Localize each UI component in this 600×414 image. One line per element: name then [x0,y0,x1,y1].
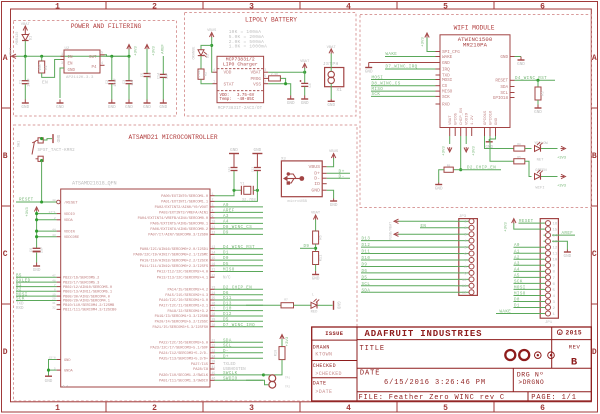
svg-text:C: C [592,250,597,259]
svg-text:SDA: SDA [500,85,508,90]
resistor R2 1.0K [198,69,204,79]
svg-text:GND: GND [485,145,493,150]
svg-text:PA01/I11/SECOM1.3/SWDIO: PA01/I11/SECOM1.3/SWDIO [159,379,209,384]
svg-text:PB03/13/AIN11/SERCOM5.1: PB03/13/AIN11/SERCOM5.1 [63,289,113,294]
svg-text:11: 11 [462,285,467,289]
svg-text:PA08/I2C/AIN16/SERCOM0+2.0/I2S: PA08/I2C/AIN16/SERCOM0+2.0/I2SD1 [140,247,209,252]
svg-text:GND: GND [564,254,572,259]
svg-text:PB23/17/SERCOM5.3: PB23/17/SERCOM5.3 [63,280,99,285]
svg-text:12: 12 [462,292,467,296]
svg-text:GND: GND [312,276,320,281]
capacitor C2 10uF [111,56,113,80]
svg-text:C6: C6 [30,248,34,252]
wire VBAT rail [17,55,130,57]
svg-text:1uF: 1uF [40,247,44,253]
svg-text:3: 3 [249,2,254,11]
svg-text:TP2: TP2 [285,386,290,389]
ground [315,271,317,275]
svg-text:RXD: RXD [442,102,450,107]
resistor R5 1K [514,159,525,164]
svg-text:11: 11 [553,253,558,257]
svg-text:VDDIO: VDDIO [64,213,75,217]
svg-text:OUT: OUT [89,56,97,60]
svg-text:KTOWN: KTOWN [315,351,332,357]
svg-text:30: 30 [212,323,216,327]
wire VBUS to U3 VDD [211,37,214,72]
svg-text:VSS: VSS [253,83,261,88]
svg-text:GND: GND [21,105,29,110]
svg-text:31: 31 [52,302,56,305]
svg-text:PA17/I2C/I1/SERCOM1+3.1: PA17/I2C/I1/SERCOM1+3.1 [159,304,209,309]
svg-text:15: 15 [553,229,558,233]
svg-text:R2: R2 [204,72,208,76]
svg-text:B: B [592,152,597,161]
resistor R9 pulldown chip_en [453,169,460,171]
svg-text:PA28/I8: PA28/I8 [193,367,208,372]
svg-text:+3V3: +3V3 [422,37,426,47]
svg-text:GND: GND [33,268,41,273]
svg-text:PA15/I15/SERCOM2+4.3: PA15/I15/SERCOM2+4.3 [165,293,208,298]
svg-text:C14: C14 [158,73,162,79]
wire R2 to STAT [201,79,213,83]
junction [127,55,130,58]
crystal Y1 32.768kHz [240,186,242,195]
svg-text:GND: GND [68,69,76,73]
svg-text:GND: GND [45,379,53,384]
ground at U4 right GND pin [515,56,522,58]
U1 /RESET inversion bubble [57,200,61,204]
svg-text:Temp:: Temp: [220,98,232,102]
svg-text:PA20/I4/SERCOM3+5.2/I2SSC: PA20/I4/SERCOM3+5.2/I2SSC [155,320,209,325]
svg-text:34: 34 [212,354,216,358]
svg-text:VBAT: VBAT [250,71,261,76]
svg-text:PB10/110/SERCOM4.2/I2SMB: PB10/110/SERCOM4.2/I2SMB [63,303,115,308]
diode D1 MBR120 [22,35,29,41]
svg-text:C13: C13 [251,167,254,173]
svg-text:6/15/2016 3:26:46 PM: 6/15/2016 3:26:46 PM [384,379,486,387]
resistor R10 pullup [279,347,285,360]
wire +3V3 to R10 [281,339,283,347]
header JP1 [540,219,558,319]
capacitor C6 1uF VDDCORE [36,237,38,249]
svg-text:GND: GND [311,188,320,194]
svg-text:GND: GND [500,55,508,60]
svg-text:SW1: SW1 [18,141,22,147]
svg-text:PA30/I10/SECOM1.2/SWCLK: PA30/I10/SECOM1.2/SWCLK [159,373,209,378]
svg-text:1.0K = 1000mA: 1.0K = 1000mA [229,44,267,50]
svg-text:6: 6 [540,404,545,413]
wire R9 to ground [439,170,444,183]
svg-text:PA10/I10/AIN18/SERCOM0+2.2/I2S: PA10/I10/AIN18/SERCOM0+2.2/I2SCK [140,258,209,263]
title block copyright cell [551,327,553,340]
svg-text:SPST_TACT-KMR2: SPST_TACT-KMR2 [38,149,76,153]
svg-text:ADAFRUIT INDUSTRIES: ADAFRUIT INDUSTRIES [365,329,483,339]
svg-text:D1: D1 [30,36,34,40]
svg-text:/RESET: /RESET [64,200,78,205]
svg-text:PA16/I2C/I0/SERCOM1+3.0: PA16/I2C/I0/SERCOM1+3.0 [159,298,208,303]
svg-text:2: 2 [212,198,214,202]
svg-text:GND: GND [56,105,64,110]
svg-text:ID: ID [314,181,320,187]
ground [438,183,440,185]
supply +3V3 to SPI_CFG [425,33,429,38]
wire GND GNDA to ground [49,360,57,376]
svg-text:RXLED: RXLED [16,279,31,283]
svg-text:PROG: PROG [250,77,261,82]
resistor R1 10K [41,56,43,61]
svg-text:EN: EN [68,63,74,67]
svg-text:R7: R7 [284,298,288,301]
svg-text:GND: GND [336,301,341,309]
svg-text:GND: GND [517,62,525,67]
wire D13 to R7 [246,304,281,306]
svg-text:LIPO Charger: LIPO Charger [223,62,258,68]
svg-text:3: 3 [61,62,63,66]
title block outer frame [312,327,592,401]
svg-text:R3: R3 [542,91,546,95]
svg-text:X1: X1 [337,88,343,93]
pin stubs U4 left [436,51,441,53]
svg-text:39: 39 [212,360,216,364]
capacitor C13 load cap [256,171,258,190]
svg-text:GPIO18: GPIO18 [493,96,509,101]
svg-text:c: c [559,332,561,336]
wifi module U4 ATWINC1500 [440,35,510,128]
svg-text:12: 12 [553,247,558,251]
svg-text:POWER AND FILTERING: POWER AND FILTERING [71,23,142,30]
ground [333,199,335,202]
svg-text:32: 32 [52,307,56,310]
svg-text:VBUS: VBUS [308,164,320,170]
svg-text:R1: R1 [45,65,49,69]
svg-text:L: L [312,293,314,297]
title block left column [356,327,358,401]
svg-text:VDDIO: VDDIO [466,112,470,125]
svg-text:C12: C12 [228,167,231,173]
svg-text:MBR120: MBR120 [16,32,20,45]
wire diode to rail [24,41,26,57]
svg-text:MOSI: MOSI [16,293,28,297]
svg-text:10uF: 10uF [28,78,32,87]
supply +3V3 arrow JP1 [512,219,516,224]
regulator U2 AP2112K-3.3 [64,50,100,73]
svg-text:1.2V: 1.2V [471,115,475,125]
junction [40,55,43,58]
svg-text:WIFI MODULE: WIFI MODULE [454,25,495,32]
svg-text:C2: C2 [106,80,110,84]
ground U4 bottom GND pins [490,136,496,139]
charger U3 MCP73831/2 [217,56,264,102]
svg-text:1uF: 1uF [149,72,153,78]
svg-text:D-: D- [314,176,320,182]
svg-text:PB11/111/SERCOM4.3/I2SCB0: PB11/111/SERCOM4.3/I2SCB0 [63,308,116,313]
supply +3V3 arrow SWD [280,335,284,340]
svg-text:PA22/I2C/I6/SERCOM3+5.0: PA22/I2C/I6/SERCOM3+5.0 [159,341,208,346]
LED D2 ORANGE [198,50,204,56]
wire R1 to EN pin [42,60,61,78]
svg-text:10K: 10K [39,63,43,70]
svg-text:TITLE: TITLE [360,345,386,353]
svg-text:D2: D2 [207,54,211,58]
wire SW1 to RESET net [41,161,43,202]
svg-text:1.0K: 1.0K [198,70,201,77]
wire CHIP_EN net [460,136,462,170]
svg-text:GND: GND [495,117,499,125]
svg-text:1: 1 [212,192,214,196]
junction [40,159,43,162]
junction [536,79,539,82]
svg-text:1: 1 [55,2,60,11]
svg-text:PA23/I2C/I7/SERCOM3+5.1/SOF: PA23/I2C/I7/SERCOM3+5.1/SOF [150,346,208,351]
svg-text:RED: RED [311,311,319,315]
ground [24,100,26,104]
svg-text:GND: GND [108,105,116,110]
wire U2 GND to ground [60,68,64,98]
svg-text:GPIO15: GPIO15 [484,110,488,125]
supply +3V3 arrow [127,45,131,50]
resistor R6 divider top [313,231,319,244]
capacitor C12 load cap [233,171,235,190]
svg-text:GND: GND [301,101,309,106]
wire XOUT pin2 [215,190,258,201]
wire VBAT to X1 [330,54,332,72]
svg-text:R11: R11 [320,255,324,261]
svg-text:ATSAMD21G18_QFN: ATSAMD21G18_QFN [72,181,116,187]
svg-text:PB02/12/AIN10/SERCOM5.0: PB02/12/AIN10/SERCOM5.0 [63,285,112,290]
svg-text:VBAT: VBAT [9,47,13,56]
svg-text:CHECKED: CHECKED [313,363,336,369]
svg-text:R5: R5 [517,156,521,159]
svg-text:GNDA: GNDA [64,369,73,373]
wire U2 OUT rail [105,55,130,57]
junction [303,71,306,74]
svg-text:MISO: MISO [442,90,453,95]
wire +3V3 to VDDIO VDDA VDDIN VDDCORE [37,211,57,237]
wire LED to R2 [200,56,202,69]
svg-text:PB09/29/AIN3/SERCOM4.1: PB09/29/AIN3/SERCOM4.1 [63,299,111,304]
svg-text:2: 2 [152,404,157,413]
title block DRG cell [512,368,514,391]
svg-text:C1: C1 [20,80,24,84]
svg-text:9: 9 [212,214,214,218]
svg-text:MOSI: MOSI [442,78,453,83]
ground [36,263,38,267]
svg-text:GND: GND [55,135,60,143]
svg-text:5: 5 [264,75,266,79]
svg-text:GND: GND [125,105,133,110]
svg-text:4: 4 [346,2,351,11]
junction [459,168,462,171]
svg-text:PA01/EXTINT1/SERCOM1.1: PA01/EXTINT1/SERCOM1.1 [161,200,209,205]
reset switch SW1 SPST_TACT-KMR2 [38,138,43,143]
wire LED to +3V3 arrow [541,176,558,178]
resistor R11 divider bottom [313,252,319,265]
svg-text:PA21/I5/SERCOM3+5.3/I2SFS0: PA21/I5/SERCOM3+5.3/I2SFS0 [153,325,208,330]
svg-text:IRQ: IRQ [442,67,450,72]
svg-text:4: 4 [212,209,214,213]
ground at U4 GND pin [369,62,436,64]
svg-text:>CHECKED: >CHECKED [315,371,341,377]
capacitor C4 10uF [304,72,306,83]
svg-text:2.0K: 2.0K [271,73,278,76]
svg-text:+3V3: +3V3 [505,222,509,232]
svg-text:GND: GND [64,359,70,363]
wire SW1 to GND bar [44,139,53,140]
svg-text:+6.4: +6.4 [61,385,68,388]
wire R10 to SWCLK net [262,360,282,375]
svg-text:22: 22 [212,273,216,277]
title block FILE row [357,391,591,393]
svg-text:CS: CS [442,84,448,89]
resistor R7 1.0K [281,303,294,308]
svg-text:2: 2 [152,2,157,11]
svg-text:B: B [571,357,578,369]
svg-text:NET: NET [537,159,545,163]
svg-text:TXD: TXD [16,302,24,306]
svg-text:VDD: VDD [224,71,232,76]
section box WIFI MODULE [360,15,591,208]
svg-text:PA09/I2C/I9/AIN17/SERCOM0+2.1/: PA09/I2C/I9/AIN17/SERCOM0+2.1/I2SMC [133,253,209,258]
title block REV cell [551,340,553,369]
svg-text:DATE: DATE [313,380,327,386]
svg-text:PA11/I11/AIN19/SERCOM0+2.3/I2S: PA11/I11/AIN19/SERCOM0+2.3/I2SFS [140,264,209,269]
resistor R4 PROG 2.0K [269,76,281,81]
svg-text:VDDIN: VDDIN [64,230,75,234]
section box ATSAMD21 MICROCONTROLLER [14,125,358,401]
wire X1 to ground [330,84,332,100]
supply +3V3 down arrow VDDIO pin [465,136,467,144]
svg-text:+3V3: +3V3 [473,146,477,156]
svg-text:5: 5 [443,2,448,11]
svg-text:VDDCORE: VDDCORE [64,236,79,240]
svg-text:PA24/I12/SERCOM3+5.2/D-: PA24/I12/SERCOM3+5.2/D- [159,351,208,356]
ground sideways [333,301,335,310]
svg-text:WIFI: WIFI [535,187,544,191]
junction [110,55,113,58]
svg-text:JP1: JP1 [545,321,553,325]
svg-text:PAGE: 1/1: PAGE: 1/1 [531,394,576,402]
svg-text:R8: R8 [517,143,521,146]
U1 right pin stubs and numbers [210,195,215,197]
svg-text:A: A [3,54,8,63]
ground [537,105,539,109]
wire VSS to ground [268,84,291,96]
wire PROG to R4 [267,77,270,79]
svg-text:PA02/EXTINT2/AIN0/Y0/VOUT: PA02/EXTINT2/AIN0/Y0/VOUT [155,205,209,210]
svg-text:3: 3 [249,404,254,413]
svg-text:PB22/16/SERCOM5.2: PB22/16/SERCOM5.2 [63,276,99,281]
svg-text:TXLED: TXLED [223,363,236,367]
svg-text:4: 4 [346,404,351,413]
ground [59,100,61,104]
svg-text:N/C: N/C [223,275,231,280]
svg-text:R10: R10 [275,350,279,356]
svg-text:GND: GND [442,61,450,66]
svg-text:GND: GND [330,203,338,208]
svg-text:VBAT: VBAT [449,115,453,125]
svg-text:4: 4 [213,69,215,73]
title block PAGE cell [527,392,529,401]
resistor R8 1K [514,146,525,151]
capacitor C3 1uF [128,56,130,80]
port VUSB/VBAT arrow 1 [394,219,399,223]
svg-text:16: 16 [553,223,558,227]
title block DATE row [357,367,591,369]
svg-text:PA12/I12/I2C/SERCOM2+4.0: PA12/I12/I2C/SERCOM2+4.0 [157,270,208,275]
svg-text:C4: C4 [309,83,313,87]
svg-text:AP2112K-3.3: AP2112K-3.3 [66,76,94,80]
svg-text:A: A [592,54,597,63]
svg-text:GPIO16: GPIO16 [489,110,493,125]
svg-text:VUSB/VBAT: VUSB/VBAT [389,222,394,240]
USB trident icon [285,174,300,183]
svg-text:PA03/EXTINT3/VREFA/AIN1: PA03/EXTINT3/VREFA/AIN1 [159,211,209,216]
svg-text:>DRGNO: >DRGNO [518,379,544,386]
supply +3V3 arrow MCU VDD [34,207,38,212]
resistor R3 pulldown [537,80,539,87]
title block company row [357,339,591,341]
svg-text:PA06/EXTINT6/AIN6/SERCOM0.2: PA06/EXTINT6/AIN6/SERCOM0.2 [150,227,208,232]
svg-text:B2: B2 [16,288,22,292]
svg-text:SCK: SCK [442,95,450,100]
svg-text:ORANGE: ORANGE [193,47,197,60]
svg-text:+3V3: +3V3 [26,207,30,217]
svg-text:+3V3: +3V3 [286,336,290,346]
svg-text:3: 3 [212,203,214,207]
svg-text:+3V3: +3V3 [153,46,157,56]
wire JP1 GND [552,241,567,249]
svg-text:GND: GND [435,186,443,191]
svg-text:VDD:: VDD: [220,94,230,98]
svg-text:FILE: Feather Zero WINC rev C: FILE: Feather Zero WINC rev C [359,394,505,402]
svg-text:Y1: Y1 [240,182,245,186]
wire VBAT to R6 [315,220,317,232]
testpoint TP1 [264,374,269,376]
svg-text:PA19/I3/SERCOM1+3.3/I2S0B: PA19/I3/SERCOM1+3.3/I2S0B [155,314,209,319]
svg-text:2015: 2015 [566,330,582,337]
svg-text:B: B [3,152,8,161]
wire R11 to ground [315,265,317,272]
junction [24,55,27,58]
ground [45,375,52,377]
svg-text:3: 3 [264,69,266,73]
port VBAT left arrow [12,54,17,58]
pin stubs U2 [61,55,65,57]
wire VBUS to arrow [327,161,334,167]
svg-text:5: 5 [101,51,103,55]
svg-text:LIPOLY BATTERY: LIPOLY BATTERY [245,17,297,24]
wire R6 to junction [315,244,317,252]
svg-text:D: D [3,348,8,357]
svg-text:GND: GND [534,110,542,115]
svg-text:VDDA: VDDA [64,219,73,223]
svg-text:REV: REV [569,344,581,351]
svg-text:RESET: RESET [495,79,508,84]
svg-text:PA04/EXTINT4/VREFB/AIN4/SERCOM: PA04/EXTINT4/VREFB/AIN4/SERCOM0.0 [138,216,208,221]
svg-text:24: 24 [212,291,216,295]
svg-text:PB08/30/AIN2/SERCOM4.0: PB08/30/AIN2/SERCOM4.0 [63,294,110,299]
supply +3V3 arrow with capacitor C5 [145,45,149,50]
wire VBUS branch to LED [201,45,212,49]
adafruit logo circles [505,350,515,360]
wire LED to +3V3 arrow [541,148,558,150]
svg-text:AREF: AREF [161,44,165,54]
wire LED to ground [318,304,333,306]
svg-text:B1: B1 [16,284,22,288]
frame column ticks [105,2,107,10]
ground [566,250,568,253]
svg-text:PA14/I5/SERCOM2+4.2: PA14/I5/SERCOM2+4.2 [167,288,208,293]
